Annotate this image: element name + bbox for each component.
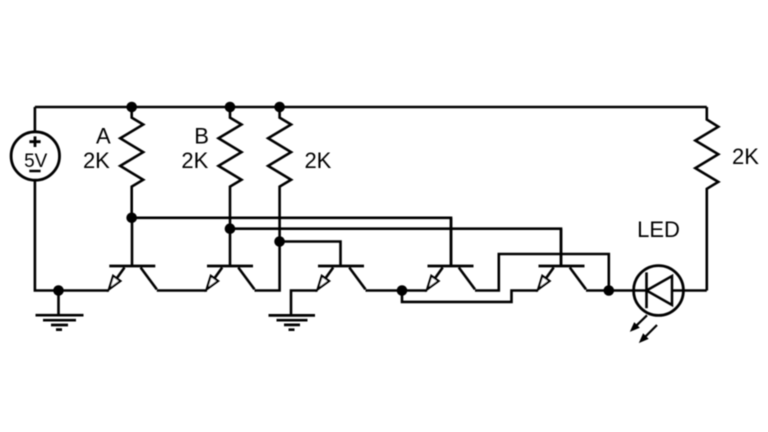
svg-text:LED: LED bbox=[637, 217, 680, 242]
transistor Q2 bbox=[207, 229, 255, 290]
wire: Q5 collector to LED node bbox=[586, 289, 609, 292]
transistor Q1 bbox=[109, 218, 157, 290]
resistor R4 (2K, right branch) bbox=[695, 107, 759, 291]
svg-text:2K: 2K bbox=[304, 148, 331, 173]
node: junction below resistor R3 bbox=[274, 236, 285, 247]
svg-text:2K: 2K bbox=[181, 148, 208, 173]
LED light arrow 2 bbox=[639, 325, 657, 343]
wire: Q3 emitter to ground bbox=[291, 291, 318, 316]
wire: step node to Q4 emitter bbox=[402, 289, 427, 292]
svg-text:A: A bbox=[96, 124, 111, 149]
node: Q3 collector junction bbox=[397, 285, 408, 296]
resistor R3 (2K) bbox=[268, 107, 332, 242]
wire: LED anode to right rail bbox=[672, 289, 707, 292]
node: junction below resistor A bbox=[126, 213, 137, 224]
ground: middle ground symbol bbox=[269, 315, 316, 329]
wire: stepped link from node to Q5 emitter bbox=[402, 291, 538, 302]
wire: node to LED cathode bbox=[609, 289, 647, 292]
wire: Q2 collector up to node R3 bbox=[255, 242, 280, 291]
wire: Q4 collector up-and-over to LED node bbox=[475, 254, 609, 291]
LED light arrow 1 bbox=[630, 315, 647, 332]
svg-text:2K: 2K bbox=[83, 148, 110, 173]
node: LED junction bbox=[604, 285, 615, 296]
LED D1 bbox=[634, 217, 684, 315]
resistor R1 (A, 2K) bbox=[83, 107, 143, 218]
transistor Q3 bbox=[318, 266, 366, 289]
wire: Q1 collector to Q2 emitter bbox=[157, 289, 207, 292]
wire: source bottom to lower-left rail bbox=[35, 180, 109, 290]
node: ground junction dot bbox=[53, 285, 64, 296]
voltage source V1 5V bbox=[11, 132, 59, 180]
wire: Q3 collector to step node bbox=[366, 289, 403, 292]
node: junction below resistor B bbox=[225, 223, 236, 234]
wire: bus from node A to Q4 base bbox=[132, 218, 451, 266]
transistor Q4 bbox=[427, 218, 475, 290]
node: rail junction above resistor B bbox=[225, 102, 236, 113]
transistor Q5 bbox=[538, 229, 586, 290]
svg-text:B: B bbox=[194, 124, 209, 149]
svg-text:2K: 2K bbox=[732, 144, 759, 169]
node: rail junction above resistor R3 bbox=[274, 102, 285, 113]
wire: bus from node B to Q5 base bbox=[230, 229, 561, 266]
svg-text:5V: 5V bbox=[24, 151, 48, 172]
wire: from node R3 to Q3 base bbox=[280, 242, 341, 267]
wire: left vertical from rail to source bbox=[34, 107, 37, 132]
wire: top supply rail bbox=[35, 106, 707, 109]
ground: left ground symbol bbox=[36, 291, 84, 330]
node: rail junction above resistor A bbox=[126, 102, 137, 113]
resistor R2 (B, 2K) bbox=[181, 107, 241, 229]
